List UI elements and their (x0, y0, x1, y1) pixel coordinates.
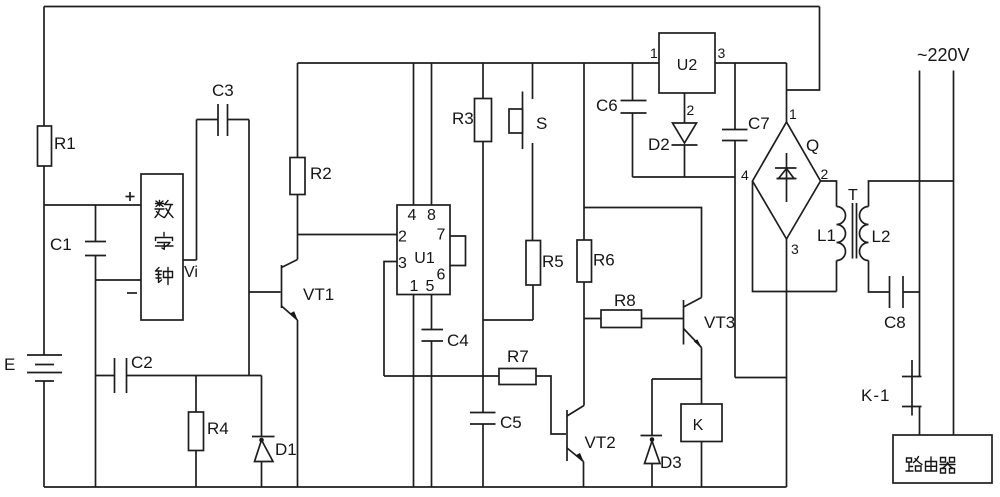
diode D3 (641, 379, 682, 487)
wire U1 pin1 to bottom rail (413, 295, 415, 488)
svg-text:R8: R8 (614, 291, 636, 310)
svg-text:R1: R1 (54, 134, 76, 153)
svg-text:3: 3 (398, 255, 407, 272)
wire top rail (44, 6, 820, 8)
switch K-1 (861, 360, 922, 416)
op-amp U1 box (397, 205, 450, 295)
svg-text:6: 6 (437, 267, 446, 284)
svg-text:C3: C3 (212, 81, 234, 100)
wire left drop R1 (43, 7, 45, 127)
svg-text:Vi: Vi (184, 264, 198, 281)
wire K to bottom rail (701, 442, 703, 488)
capacitor C6 (596, 63, 647, 177)
resistor R8 (584, 291, 683, 328)
capacitor C4 (422, 295, 469, 488)
svg-text:4: 4 (741, 167, 749, 183)
svg-text:C4: C4 (447, 331, 469, 350)
wire R7 to VT2 base (536, 376, 566, 434)
svg-text:S: S (536, 114, 547, 133)
wire mains right line (953, 71, 955, 436)
wire L2 top to mains (869, 181, 954, 207)
wire battery to bottom rail (43, 381, 45, 487)
wire U1 pin7-pin6 stub (450, 236, 466, 266)
wire U1 pin3 (384, 262, 397, 377)
svg-text:C2: C2 (131, 353, 153, 372)
wire R3 bottom leg (482, 142, 484, 413)
wire minus input (96, 279, 142, 281)
label minus (127, 292, 137, 294)
wire U1 pin4 (413, 63, 415, 205)
speaker S (509, 63, 547, 241)
inductor L2 (860, 207, 891, 261)
svg-text:R4: R4 (207, 419, 229, 438)
wire node rail y376 (384, 375, 499, 377)
wire VT3 emitter to relay K (701, 348, 703, 405)
svg-text:R6: R6 (593, 251, 615, 270)
wire VT3 emitter to D3 (652, 378, 702, 380)
svg-text:T: T (848, 187, 858, 204)
wire U2 pin2 stem (684, 93, 686, 123)
svg-text:U2: U2 (677, 57, 698, 74)
router box 路由器 (893, 435, 992, 483)
svg-text:2: 2 (398, 229, 407, 246)
svg-text:D2: D2 (648, 135, 670, 154)
svg-text:E: E (4, 355, 15, 374)
label 器 (940, 458, 955, 474)
svg-text:C8: C8 (884, 313, 906, 332)
wire mains left line (919, 71, 921, 377)
diode D2 (648, 123, 698, 177)
capacitor C3 (197, 81, 250, 136)
wire Vi stub (183, 259, 197, 261)
svg-text:D3: D3 (660, 453, 682, 472)
transistor VT3 (684, 298, 736, 349)
wire C7 leg to ground line (735, 377, 787, 379)
svg-text:R7: R7 (507, 347, 529, 366)
wire U1 pin8 (431, 63, 433, 205)
resistor R7 (499, 347, 536, 385)
wire U2 pin3 to bridge (715, 62, 787, 64)
resistor R3 (452, 63, 492, 142)
regulator U2 box (659, 33, 715, 93)
capacitor C1 (50, 205, 106, 487)
wire AC minus rail (633, 176, 736, 178)
svg-text:VT1: VT1 (303, 285, 334, 304)
svg-text:VT3: VT3 (704, 313, 735, 332)
wire bridge pin2 to L1 top (821, 181, 837, 207)
digital clock box 数字钟 (141, 174, 183, 320)
resistor R2 (290, 63, 332, 260)
svg-text:D1: D1 (275, 440, 297, 459)
svg-text:R2: R2 (310, 164, 332, 183)
wire K-1 to router (919, 407, 921, 436)
svg-text:~220V: ~220V (917, 45, 970, 65)
label plus (126, 192, 135, 201)
svg-text:1: 1 (650, 45, 658, 61)
capacitor C8 (884, 276, 920, 332)
capacitor C5 (470, 413, 522, 488)
wire mid rail to U2 pin1 (298, 62, 660, 64)
wire C3 left leg to Vi (196, 120, 198, 261)
svg-text:C7: C7 (748, 114, 770, 133)
svg-text:3: 3 (791, 241, 799, 257)
wire bottom rail (44, 486, 787, 488)
svg-text:L2: L2 (872, 227, 891, 246)
svg-text:R5: R5 (542, 252, 564, 271)
battery E (4, 355, 62, 381)
wire VT2 emitter to bottom rail (583, 462, 585, 488)
svg-text:2: 2 (821, 166, 829, 182)
svg-text:4: 4 (408, 207, 417, 224)
transformer T core (848, 187, 858, 259)
svg-text:R3: R3 (452, 109, 474, 128)
wire R1 to battery (43, 166, 45, 355)
wire C3 right leg down to C2 node (248, 120, 250, 376)
svg-text:L1: L1 (817, 226, 836, 245)
wire R5 to R3 leg (483, 319, 533, 321)
wire L2 bottom to C8 (869, 261, 890, 293)
diode D1 (252, 376, 297, 488)
inductor L1 (817, 207, 846, 292)
svg-text:2: 2 (687, 102, 695, 118)
wire bridge pin4 to L1 bottom (753, 181, 837, 292)
svg-text:8: 8 (427, 207, 436, 224)
wire VT1 emitter to bottom rail (297, 320, 299, 487)
svg-text:C6: C6 (596, 96, 618, 115)
resistor R1 (38, 126, 76, 166)
capacitor C7 (722, 63, 770, 378)
transistor VT2 (567, 406, 616, 463)
relay K box (681, 404, 722, 442)
transistor VT1 (282, 260, 335, 321)
wire top-right drop to bridge node 1 (787, 7, 820, 91)
wire U1 pin2 (298, 234, 398, 236)
wire bridge pin3 to bottom rail (786, 239, 788, 487)
label 由 (926, 457, 937, 471)
label 数 (155, 201, 173, 218)
wire VT1 base (249, 291, 281, 293)
svg-text:5: 5 (426, 278, 435, 295)
wire plus input (44, 204, 141, 206)
svg-text:K: K (693, 417, 704, 434)
svg-text:U1: U1 (414, 250, 435, 267)
svg-text:C5: C5 (500, 413, 522, 432)
svg-text:3: 3 (718, 45, 726, 61)
wire VT3 collector feed (584, 208, 702, 298)
svg-text:1: 1 (410, 278, 419, 295)
wire bridge pin1 stem (786, 63, 788, 122)
label 路 (906, 457, 922, 472)
resistor R5 (526, 241, 564, 321)
resistor R6 (577, 63, 615, 406)
svg-text:VT2: VT2 (585, 433, 616, 452)
rectifier bridge Q (753, 122, 821, 239)
label 钟 (156, 268, 173, 285)
svg-text:C1: C1 (50, 235, 72, 254)
label 字 (156, 233, 174, 250)
svg-text:7: 7 (437, 227, 446, 244)
svg-text:K-1: K-1 (861, 386, 890, 405)
resistor R4 (189, 376, 229, 488)
svg-text:1: 1 (789, 106, 797, 122)
capacitor C2 (96, 353, 262, 393)
svg-text:Q: Q (806, 136, 819, 155)
